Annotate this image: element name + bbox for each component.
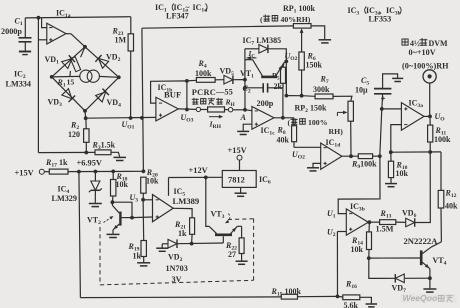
op-amp IC1b [156,97,178,121]
wire VD2 to VT3 base [177,242,223,245]
resistor R20 [141,177,146,193]
dashed box right edge [253,219,255,280]
node rail x79 [77,170,81,174]
ground VT2 [107,233,120,235]
wire riser to C5 node [380,109,382,156]
svg-text:(: ( [260,15,263,24]
wire R8 to IC1d [294,146,321,148]
node VD5 rail [243,78,247,82]
node UO2 row [285,94,289,98]
node IC1b output [185,108,189,112]
wire bridge arm bottom-left [52,77,85,111]
wire VT2 base to IC5 plus [132,216,153,219]
capacitor C2 [245,87,263,89]
wire 7812 ground [240,187,242,192]
node UO [428,115,432,119]
resistor R3 [95,150,111,155]
node bridge top [83,45,87,49]
svg-text:100k: 100k [195,69,212,78]
svg-text:2k: 2k [274,82,283,91]
svg-text:10k: 10k [116,180,129,189]
diode IC7 LM385 [259,45,268,54]
wire U3 rail down [142,200,145,241]
wire top line to RP1 [142,26,294,28]
wire U2 stub [337,231,346,233]
wire UO1 line [86,116,156,119]
wire R13 to VD6 [396,221,406,223]
node emitter VD7 [428,276,432,280]
ground R16 [366,303,378,305]
node rail R18 [111,170,115,174]
op-amp IC1c [252,107,274,130]
resistor R22 [239,238,244,254]
ground IC1d [307,167,319,169]
arrow IRH [209,116,221,118]
svg-text:15: 15 [67,78,75,87]
wire IC5 output [173,208,192,218]
label shimin dianzu [192,98,199,105]
resistor R8 [293,118,295,126]
label jie DVM [402,39,408,45]
wire bridge midline left [52,75,81,78]
wire IC1d output [342,155,358,157]
svg-text:1k: 1k [178,229,187,238]
node VT2 collector [111,200,115,204]
terminal DVM [423,70,436,83]
wire IC1c plus to ground [243,124,252,131]
dashed box top edge [228,218,254,221]
svg-text:+12V: +12V [189,166,208,175]
svg-text:10μ: 10μ [355,86,368,95]
transistor VT3 [215,234,232,237]
resistor R10 [390,152,392,161]
potentiometer RP1 body [293,24,311,29]
wire R3 to ground [111,152,120,156]
svg-text:LF347: LF347 [166,12,189,21]
svg-text:RH): RH) [329,127,344,136]
svg-text:—55: —55 [215,88,233,97]
transistor VT2 [112,202,132,217]
svg-text:200p: 200p [257,99,274,108]
wire UO2 drop [285,61,287,95]
wire RP1 wiper [300,28,304,33]
svg-text:(0~100%)RH: (0~100%)RH [402,62,449,71]
wire U1 path [338,156,380,214]
diode VD3 [62,89,75,102]
wire VD6 up [415,152,430,223]
wire R7 to RP2 [333,96,352,101]
svg-text:+15V: +15V [228,146,247,155]
svg-text:1M: 1M [115,36,127,45]
svg-text:LM329: LM329 [52,194,77,203]
resistor R6 [299,52,304,70]
zener IC4 LM329 [94,172,96,182]
svg-text:40k: 40k [445,202,458,211]
node C5 bottom [380,107,384,111]
op-amp IC3b [346,209,368,235]
svg-text:40k: 40k [277,136,290,145]
transistor VT1 [261,76,277,79]
svg-text:10k: 10k [396,169,409,178]
ground below R3 [114,156,127,158]
wire node A to IC1c [245,109,252,112]
node IC1c feedback [281,116,285,120]
wire LM334 rail [37,18,39,153]
humidity sensor body [208,107,225,112]
watermark WeeQoo [400,294,457,304]
resistor R9 [358,154,372,159]
wire to 7812 [239,160,241,170]
connector circle left of sensor [196,107,200,111]
diode VD4 [96,89,109,102]
diode VD1 [62,55,75,68]
wire IC1b output [178,108,196,111]
svg-text:+15V: +15V [15,169,34,178]
wire U2 riser [336,232,338,297]
terminal +15V center [237,155,242,160]
node VT2 base line [130,216,134,220]
svg-text:2000p: 2000p [1,27,22,36]
arrow RP2 wiper [336,112,338,116]
capacitor C5 [381,94,384,109]
svg-text:PCRC: PCRC [192,88,216,97]
wire LM385 left [245,48,259,50]
ground LM329 [89,203,102,205]
wire VD7 to emitter [405,277,430,279]
resistor R2 [85,118,87,129]
svg-text:10k: 10k [146,177,159,186]
node VT1 emitter [284,60,288,64]
ground C5 [392,77,403,79]
node VD2 cathode [190,242,194,246]
wire base VT4 [369,257,420,259]
resistor R15 [281,294,297,299]
svg-text:+6.95V: +6.95V [77,159,102,168]
wire sensor to circle [225,109,229,111]
wire top feedback line [25,17,131,18]
svg-text:7812: 7812 [228,176,245,185]
node U3 [141,198,145,202]
wire R12 drop [440,152,442,191]
wire R4 branch [187,79,197,82]
svg-text:）: ） [205,2,213,12]
wire IC3b output [368,221,379,223]
wire RP1 right to ground [311,26,325,39]
wire U3 to IC5 minus [143,199,152,201]
node rail R20 [142,169,146,173]
wire feedback row y152 [391,151,441,153]
node UO1 left [84,116,88,120]
wire center rail x142 [142,28,144,171]
svg-text:LF353: LF353 [369,14,392,23]
wire IC1d plus to ground [313,163,321,167]
wire to DVM terminal [429,83,431,116]
node bridge right [117,75,121,79]
node bridge left [50,75,54,79]
wire LM385 right [268,49,286,62]
wire IC1c output [274,117,294,119]
node R23 bottom UO1 [129,116,133,120]
wire IC1a output to bridge top [66,34,85,47]
svg-text:40%RH): 40%RH) [281,15,311,24]
svg-text:300k: 300k [313,85,330,94]
svg-text:A: A [240,113,247,122]
node center rail UO1 [140,116,144,120]
ground VD2 [156,247,168,249]
wire ground rail y152 [38,151,95,153]
node IC3b out [368,220,372,224]
node R11 bottom [428,150,432,154]
svg-text:120: 120 [68,130,80,139]
wire to sensor [201,109,208,111]
ground IC1c [237,130,249,132]
wire +12V to VT3 collector [206,177,209,226]
wire bridge bottom to UO1 [84,111,87,118]
ground R19 [137,262,150,264]
svg-text:DVM: DVM [429,39,449,48]
ground 7812 [235,192,247,194]
svg-text:LM389: LM389 [173,196,200,206]
node R9 right [378,154,382,158]
ground R22 [236,260,248,262]
wire VD5 to rail [233,79,245,81]
svg-text:2N2222A: 2N2222A [404,236,439,246]
diode VD5 [224,75,233,84]
terminal +15V left [39,169,44,174]
svg-text:10k: 10k [351,245,364,254]
wire IC1b feedback [151,81,187,110]
transistor VT4 [420,250,423,265]
resistor R17 [49,169,68,174]
diode VD2 [168,239,177,248]
wire to node A [233,109,245,111]
op-amp IC3a [401,103,424,131]
node rail zener [94,170,98,174]
wire R9 right [373,155,380,157]
wire IC3a minus path [391,125,402,153]
ground R10 [385,183,397,185]
op-amp IC1d [321,143,342,169]
ground VT4 [423,288,436,290]
resistor R7 [315,94,333,99]
wire to R16 [338,295,343,298]
connector circle right of sensor [228,108,232,112]
svg-text:1N703: 1N703 [166,264,188,273]
svg-text:LM334: LM334 [6,80,31,89]
wire R4 to VD5 [215,79,224,81]
diode VD7 [395,274,404,283]
svg-text:BUF: BUF [164,90,181,100]
resistor R5 [282,63,285,67]
svg-text:150k: 150k [306,61,323,70]
label C5 plus [381,97,385,99]
ground RP1 [319,39,332,41]
node A [243,108,247,112]
resistor R23 [130,17,132,34]
wire bottom rail [80,296,281,299]
svg-text:1.5M: 1.5M [376,225,394,234]
wire R15 to node [298,295,338,297]
ground below C1 [19,51,31,53]
svg-text:5.6k: 5.6k [344,301,359,308]
wire left bottom rail [79,172,81,298]
wire R16 right [360,297,372,303]
potentiometer RP2 body [348,101,353,121]
wire VD2 anode side [162,243,168,245]
wire noninverting stub IC1a [38,39,46,41]
node bottom U2 [336,295,340,299]
node +12V [204,176,208,180]
wire bridge midline right [99,75,119,78]
resistor R13 [380,220,396,225]
svg-text:100k: 100k [434,135,451,144]
wire to R17 [44,171,49,173]
wire VT1 left rail [244,49,246,110]
node R10 top [389,150,393,154]
node IC1d out [349,154,353,158]
dashed box left edge [99,227,101,285]
diode VD2 [95,55,108,68]
resistor R14 [368,222,370,232]
wire VD7 branch [369,258,395,278]
svg-text:1k: 1k [133,252,142,261]
node R6 bottom [300,94,304,98]
wire RP2 bottom drop [350,121,352,156]
capacitor C1 [24,18,26,37]
resistor R4 [196,78,215,83]
wire bridge arm bottom-right [85,77,119,111]
lamp bulb circles [80,70,92,82]
resistor R1 tilted [81,47,85,57]
svg-text:）: ） [399,5,407,15]
op-amp IC1a [47,23,66,44]
node C2 left [243,86,247,90]
op-amp IC5 [153,195,174,222]
resistor R21 [190,218,195,235]
svg-text:4½: 4½ [410,39,420,48]
svg-text:(: ( [288,118,291,127]
wire IC5 Vplus riser [168,178,170,196]
wire +12V rail [169,176,223,178]
svg-text:WeeQoo: WeeQoo [403,293,438,303]
node feedback top corner [185,79,189,83]
resistor R11 [429,116,431,125]
resistor R16 [343,295,360,300]
svg-text:100%: 100% [308,118,328,127]
arrow IC [247,57,257,59]
wire inverting drop IC1a [42,18,47,28]
node R2 bottom [84,151,88,155]
node bridge bottom [83,109,87,113]
regulator 7812 box [222,171,256,188]
resistor R12 [438,190,444,208]
svg-text:0~+10V: 0~+10V [409,48,436,57]
dashed box bottom edge [100,280,254,285]
wire to IC3a plus [382,108,402,110]
wire +6.95V rail [68,170,143,172]
svg-text:27: 27 [228,250,236,259]
wire bridge arm top-right [85,47,119,78]
node junction top-left [37,16,41,20]
node R14 bottom [367,256,371,260]
wire y96 row [286,95,301,97]
resistor R19 [141,241,146,257]
wire IC3a output [424,115,430,117]
resistor R18 [112,171,114,179]
wire bridge arm top-left [52,47,85,77]
wire C2 to IC1c out [282,88,284,118]
diode VD6 [406,218,415,227]
